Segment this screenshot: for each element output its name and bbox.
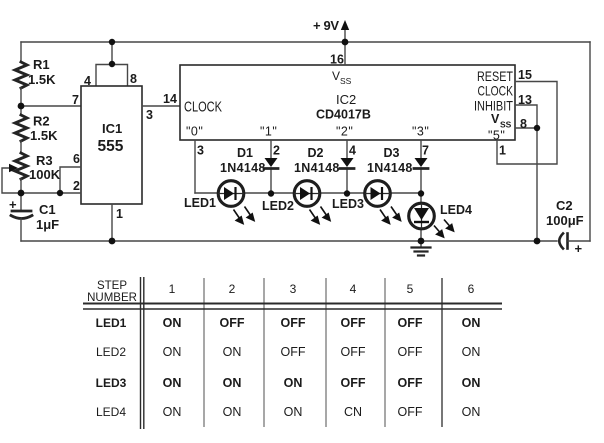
svg-text:1: 1 bbox=[499, 144, 506, 158]
node rail/IC1-48 bbox=[109, 39, 115, 45]
wire R3 bottom to node bbox=[20, 179, 22, 193]
svg-text:OFF: OFF bbox=[341, 316, 366, 330]
svg-text:7: 7 bbox=[422, 144, 429, 158]
svg-text:ON: ON bbox=[223, 345, 242, 359]
ground bbox=[420, 241, 422, 247]
svg-text:OFF: OFF bbox=[281, 316, 306, 330]
node pin2/pin6 bbox=[57, 190, 63, 196]
svg-text:LED3: LED3 bbox=[96, 376, 127, 390]
svg-text:CLOCK: CLOCK bbox=[184, 99, 222, 116]
svg-text:LED1: LED1 bbox=[96, 316, 127, 330]
svg-text:4: 4 bbox=[349, 144, 356, 158]
node +9V/pin16 bbox=[342, 39, 349, 46]
LED2 symbol bbox=[300, 187, 312, 200]
svg-text:13: 13 bbox=[518, 93, 532, 107]
svg-text:OFF: OFF bbox=[398, 345, 423, 359]
svg-text:OFF: OFF bbox=[220, 316, 245, 330]
node bracket bbox=[109, 61, 115, 67]
wire R2 to R3 bbox=[20, 141, 22, 153]
table row LED1 bbox=[163, 316, 481, 330]
wire pin15 reset loop bbox=[497, 82, 557, 165]
svg-text:V: V bbox=[332, 69, 340, 83]
wire pin8 to ground drop bbox=[515, 128, 537, 241]
svg-text:4: 4 bbox=[350, 282, 357, 296]
wire pin6 pin2 loop bbox=[21, 167, 81, 193]
svg-text:V: V bbox=[491, 112, 500, 126]
svg-text:4: 4 bbox=[84, 74, 91, 88]
wire +9V arrow stem bbox=[344, 27, 346, 42]
node D3/LED bbox=[418, 190, 424, 196]
svg-text:NUMBER: NUMBER bbox=[87, 292, 137, 304]
svg-text:OFF: OFF bbox=[398, 405, 423, 419]
diode D2 bbox=[340, 167, 354, 170]
svg-text:14: 14 bbox=[163, 92, 177, 106]
node R3/pin2 bbox=[18, 190, 25, 197]
svg-text:3: 3 bbox=[290, 282, 297, 296]
svg-text:1N4148: 1N4148 bbox=[367, 161, 413, 175]
table row labels bbox=[96, 316, 127, 419]
svg-text:"5": "5" bbox=[488, 129, 505, 143]
table double vertical rule bbox=[141, 277, 144, 429]
svg-text:2: 2 bbox=[229, 282, 236, 296]
svg-text:3: 3 bbox=[197, 144, 204, 158]
svg-text:R2: R2 bbox=[33, 114, 50, 129]
wire chain through LEDs bbox=[218, 194, 422, 230]
svg-text:C2: C2 bbox=[556, 198, 573, 213]
svg-text:OFF: OFF bbox=[341, 376, 366, 390]
svg-text:OFF: OFF bbox=[341, 345, 366, 359]
svg-text:555: 555 bbox=[98, 138, 124, 155]
op-amp IC1 555 box bbox=[81, 86, 142, 204]
svg-text:ON: ON bbox=[163, 405, 182, 419]
LED3 symbol bbox=[371, 187, 383, 200]
wire R1 to R2 bbox=[20, 88, 22, 115]
diode D2 triangle bbox=[341, 158, 354, 167]
wire pin13 bbox=[515, 105, 537, 128]
wire pins 4-8 bracket bbox=[96, 42, 128, 86]
svg-text:16: 16 bbox=[330, 53, 344, 67]
svg-text:1N4148: 1N4148 bbox=[220, 161, 266, 175]
IC2 labels bbox=[184, 68, 513, 122]
resistor R3 (pot) bbox=[15, 153, 27, 179]
wire pin7 bbox=[21, 105, 81, 107]
wire LED4 drop bbox=[420, 193, 422, 241]
svg-text:+: + bbox=[575, 241, 583, 256]
svg-text:+: + bbox=[9, 197, 17, 212]
svg-text:LED1: LED1 bbox=[184, 196, 216, 210]
svg-text:ON: ON bbox=[462, 316, 481, 330]
svg-text:D1: D1 bbox=[237, 146, 253, 160]
svg-text:ON: ON bbox=[284, 405, 303, 419]
svg-text:LED2: LED2 bbox=[262, 199, 294, 213]
wire left drop to R1 bbox=[20, 42, 22, 62]
wire LED chain bbox=[195, 192, 421, 194]
LED2 light arrows bbox=[310, 207, 331, 224]
svg-text:ON: ON bbox=[462, 376, 481, 390]
svg-text:ON: ON bbox=[163, 316, 182, 330]
svg-text:C1: C1 bbox=[39, 202, 56, 217]
wire right rail bbox=[589, 42, 591, 241]
+9V arrowhead bbox=[341, 20, 349, 30]
svg-text:OFF: OFF bbox=[398, 376, 423, 390]
svg-text:6: 6 bbox=[73, 152, 80, 166]
capacitor C1 bbox=[12, 210, 31, 213]
svg-text:CLOCK: CLOCK bbox=[478, 83, 514, 99]
IC2 CD4017B box bbox=[180, 65, 515, 140]
svg-text:OFF: OFF bbox=[398, 316, 423, 330]
svg-text:R1: R1 bbox=[33, 57, 50, 72]
svg-text:+ 9V: + 9V bbox=[313, 18, 339, 33]
diode and LED labels bbox=[184, 146, 472, 217]
svg-text:"0": "0" bbox=[186, 125, 203, 139]
svg-text:1N4148: 1N4148 bbox=[294, 161, 340, 175]
diode D3 triangle bbox=[415, 158, 428, 167]
svg-text:"3": "3" bbox=[412, 125, 429, 139]
capacitor C2 bbox=[559, 234, 563, 249]
LED4 bbox=[409, 203, 435, 229]
svg-text:R3: R3 bbox=[36, 153, 53, 168]
wire pin2 stub D1 bbox=[270, 140, 272, 193]
svg-text:OFF: OFF bbox=[281, 345, 306, 359]
svg-text:ON: ON bbox=[462, 345, 481, 359]
diode D1 triangle bbox=[265, 158, 278, 167]
svg-text:ON: ON bbox=[462, 405, 481, 419]
wire pin4 stub D2 bbox=[346, 140, 348, 193]
LED1 bbox=[218, 181, 244, 207]
table header rule bbox=[83, 303, 502, 305]
svg-text:100K: 100K bbox=[29, 167, 61, 182]
LED2 bbox=[294, 181, 320, 207]
table column rules bbox=[204, 278, 385, 427]
svg-text:2: 2 bbox=[73, 179, 80, 193]
resistor R2 bbox=[15, 115, 27, 141]
diode D1 bbox=[264, 167, 278, 170]
wire C1 to bottom rail bbox=[20, 219, 22, 241]
node D1/LED bbox=[268, 190, 274, 196]
svg-text:3: 3 bbox=[146, 108, 153, 122]
svg-text:1μF: 1μF bbox=[36, 217, 59, 232]
svg-text:2: 2 bbox=[273, 144, 280, 158]
wire pin16 stub bbox=[344, 42, 346, 65]
svg-text:1.5K: 1.5K bbox=[30, 128, 58, 143]
svg-text:15: 15 bbox=[518, 68, 532, 82]
svg-text:CN: CN bbox=[344, 405, 362, 419]
svg-text:5: 5 bbox=[407, 282, 414, 296]
svg-text:LED2: LED2 bbox=[96, 345, 126, 359]
table row LED3 bbox=[163, 376, 481, 390]
R3 wiper arrowhead bbox=[9, 164, 18, 172]
svg-text:1: 1 bbox=[169, 282, 176, 296]
resistor R1 bbox=[15, 62, 27, 88]
wire pin1 drop bbox=[111, 204, 113, 241]
wire node to C1 bbox=[20, 193, 22, 210]
svg-text:ON: ON bbox=[223, 405, 242, 419]
svg-text:D2: D2 bbox=[308, 146, 324, 160]
LED1 symbol bbox=[224, 187, 236, 200]
schematic text labels bbox=[9, 18, 584, 256]
diode D3 bbox=[414, 167, 428, 170]
svg-text:ON: ON bbox=[163, 376, 182, 390]
svg-text:ON: ON bbox=[223, 376, 242, 390]
svg-text:D3: D3 bbox=[384, 146, 400, 160]
svg-text:CD4017B: CD4017B bbox=[316, 108, 371, 122]
svg-text:LED3: LED3 bbox=[332, 197, 364, 211]
svg-text:SS: SS bbox=[340, 76, 352, 86]
node R1/R2/pin7 bbox=[18, 103, 25, 110]
table row LED4 bbox=[163, 405, 481, 419]
label Vss right bbox=[491, 112, 512, 130]
node LED4/rail bbox=[418, 238, 425, 245]
svg-text:100μF: 100μF bbox=[546, 213, 584, 228]
svg-text:6: 6 bbox=[468, 282, 475, 296]
node pin8 rail bbox=[534, 238, 541, 245]
label Vss top bbox=[332, 69, 352, 86]
LED4 symbol bbox=[414, 208, 429, 222]
svg-text:LED4: LED4 bbox=[440, 203, 472, 217]
wire pin3 to pin14 bbox=[142, 105, 180, 107]
svg-text:ON: ON bbox=[163, 345, 182, 359]
LED1 light arrows bbox=[234, 207, 255, 224]
table row LED2 bbox=[163, 345, 481, 359]
wire pin7 stub D3 bbox=[420, 140, 422, 193]
wire bottom ground rail bbox=[21, 240, 557, 242]
LED3 bbox=[365, 181, 391, 207]
svg-text:"1": "1" bbox=[260, 125, 277, 139]
svg-text:8: 8 bbox=[520, 117, 527, 131]
svg-text:"2": "2" bbox=[336, 125, 353, 139]
svg-text:1: 1 bbox=[116, 207, 123, 221]
node pin1 rail bbox=[109, 238, 116, 245]
wire top +9V rail bbox=[21, 41, 590, 43]
LED3 light arrows bbox=[380, 207, 401, 224]
svg-text:1.5K: 1.5K bbox=[28, 72, 56, 87]
node pin13/pin8 bbox=[534, 125, 540, 131]
svg-text:8: 8 bbox=[130, 72, 137, 86]
LED4 light arrows bbox=[434, 220, 454, 238]
svg-text:7: 7 bbox=[72, 93, 79, 107]
node D2/LED bbox=[344, 190, 350, 196]
svg-text:ON: ON bbox=[284, 376, 303, 390]
svg-text:STEP: STEP bbox=[97, 280, 127, 292]
svg-text:LED4: LED4 bbox=[96, 405, 126, 419]
wire R3 wiper arm bbox=[2, 168, 21, 193]
svg-text:IC1: IC1 bbox=[102, 121, 122, 136]
wire pin3 "0" output bbox=[194, 140, 196, 193]
svg-text:IC2: IC2 bbox=[336, 92, 356, 107]
